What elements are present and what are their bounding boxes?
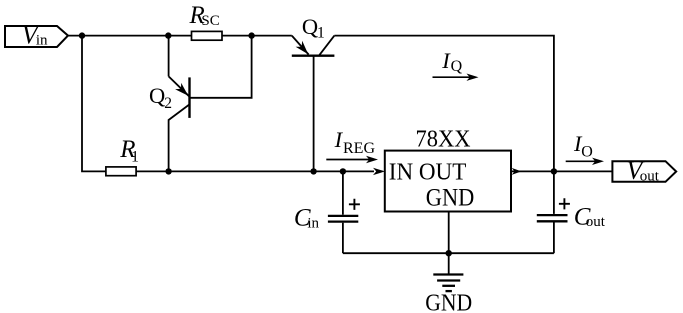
Q1 emitter lead <box>292 36 309 55</box>
Q1 base lead down to regulator input node <box>313 56 315 172</box>
wire: bottom rail from Cin to Cout <box>343 252 554 254</box>
capacitor Cout <box>537 171 570 253</box>
svg-text:Q: Q <box>302 14 318 39</box>
Cout bottom lead <box>553 222 555 253</box>
current arrow I_Q <box>433 76 471 78</box>
junction: ground node <box>446 250 452 256</box>
junction: R_SC right / Q2 base node <box>248 32 254 38</box>
Q1 collector lead <box>319 36 335 56</box>
Cin top plate <box>328 215 358 217</box>
svg-text:2: 2 <box>164 95 172 112</box>
svg-text:in: in <box>36 33 48 49</box>
svg-text:GND: GND <box>426 182 475 211</box>
junction: Cin node <box>340 168 346 174</box>
svg-text:SC: SC <box>201 13 219 29</box>
wire: R_SC right down and left to Q2 base <box>190 36 252 98</box>
Cout top lead <box>553 171 555 214</box>
svg-text:78XX: 78XX <box>416 127 471 153</box>
current arrow I_O <box>566 160 596 162</box>
junction: Q1 base node <box>310 168 316 174</box>
svg-text:REG: REG <box>343 140 375 157</box>
resistor R_SC <box>192 31 223 40</box>
svg-text:out: out <box>586 214 606 230</box>
arrowhead into IN pin <box>373 168 385 175</box>
svg-text:out: out <box>640 169 660 185</box>
wire: input row from R1 to 78XX IN <box>136 170 374 172</box>
wire: Vin node down to R1 <box>82 36 106 172</box>
node Vin: input flag symbol <box>5 26 68 47</box>
Cin top lead <box>342 171 344 214</box>
ground bar 1 <box>433 273 463 275</box>
Cin bottom lead <box>342 223 344 254</box>
svg-text:1: 1 <box>317 25 325 42</box>
transistor Q1 (PNP) <box>292 36 335 172</box>
svg-text:O: O <box>581 143 593 160</box>
Cout top plate <box>537 214 568 216</box>
wire: 78XX GND pin down to bottom rail <box>448 212 450 254</box>
Cout bottom plate <box>537 220 568 222</box>
svg-text:Q: Q <box>149 83 165 108</box>
wire: top rail from Q1 collector to right corner, down to output node <box>334 36 554 172</box>
svg-text:1: 1 <box>131 148 139 165</box>
Q2 base bar <box>188 77 190 118</box>
Q1 base bar <box>292 55 335 57</box>
Q2 collector lead <box>169 104 190 171</box>
Cin plus sign <box>349 199 360 210</box>
ground symbol <box>433 253 463 291</box>
regulator U1: 78XX box <box>385 151 511 212</box>
junction: Q2 collector node <box>165 168 171 174</box>
node Vout: output flag symbol <box>612 161 676 182</box>
svg-text:in: in <box>307 216 319 232</box>
svg-text:GND: GND <box>425 289 472 313</box>
Cout plus sign <box>559 198 570 209</box>
junction: Vin / R1 node <box>79 32 85 38</box>
wire: output row from OUT pin to Vout flag <box>511 170 612 172</box>
ground bar 2 <box>437 279 460 281</box>
junction: R_SC left / Q2 emitter node <box>165 32 171 38</box>
junction: output node <box>551 168 557 174</box>
ground bar 4 <box>446 290 452 292</box>
current arrow I_REG <box>326 159 369 161</box>
Q2 emitter arrow <box>175 83 188 96</box>
ground lead <box>448 253 450 274</box>
wire: top rail from Vin flag to Q1 emitter <box>68 35 292 37</box>
Q1 emitter arrow <box>296 41 309 54</box>
Cin bottom plate <box>328 220 358 222</box>
transistor Q2 (PNP) <box>169 76 190 171</box>
capacitor Cin <box>328 171 360 253</box>
ground bar 3 <box>442 285 455 287</box>
resistor R1 <box>106 167 136 176</box>
wire: down to Q2 emitter <box>168 36 170 77</box>
arrowhead out of OUT pin <box>512 168 522 175</box>
Q2 emitter lead <box>169 76 189 96</box>
svg-text:Q: Q <box>451 58 463 75</box>
